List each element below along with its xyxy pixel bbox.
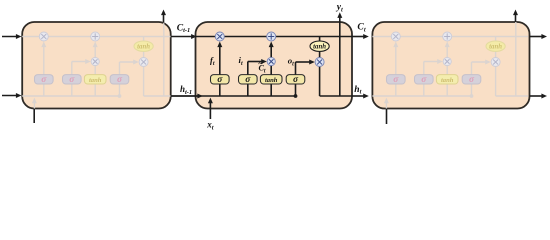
gate: sigma i — [239, 75, 258, 84]
svg-text:yt: yt — [336, 2, 343, 14]
wire: C_t-1 arrow between left and middle — [171, 36, 194, 38]
wire: candidate tanh column — [446, 84, 448, 96]
wire: C to tanh branch and output multiply — [495, 37, 497, 47]
op: tanh ellipse — [134, 41, 153, 51]
wire: x input vertical — [385, 101, 387, 119]
wire: output branch up to top — [339, 22, 341, 96]
gate: tanh box — [260, 75, 282, 84]
op: forget multiply — [39, 32, 48, 41]
op: forget multiply — [391, 32, 400, 41]
wire: x input vertical — [209, 101, 211, 119]
node: junction h/o gate — [118, 94, 122, 98]
wire: output h segment to right edge — [144, 95, 176, 97]
node: junction h/o gate — [294, 94, 298, 98]
wire: i gate column — [247, 84, 249, 96]
gate: sigma o — [462, 75, 481, 84]
svg-text:~: ~ — [258, 58, 263, 68]
wire: f gate column — [219, 84, 221, 96]
gate: sigma o — [286, 75, 305, 84]
svg-text:tanh: tanh — [489, 44, 502, 51]
op: output multiply — [491, 58, 500, 67]
op: add — [267, 32, 276, 41]
svg-text:tanh: tanh — [89, 77, 102, 84]
wire: input arrow into left cell (h) — [2, 95, 18, 97]
wire: f gate column — [395, 84, 397, 96]
svg-text:tanh: tanh — [265, 77, 278, 84]
wire: cell-state line C — [20, 36, 177, 38]
op: output multiply — [139, 58, 148, 67]
wire: x input vertical — [33, 101, 35, 119]
wire: cell-state line C — [196, 36, 353, 38]
svg-text:tanh: tanh — [137, 44, 150, 51]
wire: hidden-state line h — [347, 95, 472, 97]
ghost internals of previous cell — [0, 22, 176, 119]
wire: output h segment to right edge — [320, 95, 352, 97]
wire: C_t arrow between middle and right — [352, 36, 365, 38]
wire: h_t-1 arrow between left and middle — [171, 95, 200, 97]
op: tanh ellipse — [310, 41, 329, 51]
gate: tanh box — [436, 75, 458, 84]
node: junction h/o gate — [470, 94, 474, 98]
wire: output branch up to top — [163, 22, 165, 96]
op: forget multiply — [215, 32, 224, 41]
wire: hidden-state line h — [0, 95, 120, 97]
wire: hidden-state line h — [171, 95, 296, 97]
wire: f gate column — [43, 84, 45, 96]
wire: candidate tanh column — [94, 84, 96, 96]
svg-text:Ct: Ct — [357, 22, 365, 34]
gate: tanh box — [84, 75, 106, 84]
wire: o gate column — [471, 84, 473, 96]
wire: candidate tanh column — [270, 84, 272, 96]
LSTM cell body R — [372, 22, 529, 109]
wire: left cell top output arrow — [163, 13, 165, 22]
op: input multiply — [267, 57, 275, 65]
wire: cell-state line C — [372, 36, 529, 38]
svg-text:tanh: tanh — [313, 44, 326, 51]
gate: sigma f — [35, 75, 54, 84]
svg-text:ht-1: ht-1 — [180, 84, 192, 96]
wire: i gate column — [71, 84, 73, 96]
gate: sigma f — [211, 75, 230, 84]
wire: right cell bottom input stub — [386, 109, 388, 125]
wire: y_t output arrow of middle cell — [339, 16, 341, 22]
op: add — [443, 32, 452, 41]
op: tanh ellipse — [486, 41, 505, 51]
wire: i gate column — [423, 84, 425, 96]
wire: C to tanh branch and output multiply — [143, 37, 145, 47]
LSTM cell body L — [22, 22, 171, 109]
svg-text:Ct-1: Ct-1 — [177, 22, 191, 34]
op: output multiply — [315, 58, 324, 67]
op: input multiply — [443, 57, 451, 65]
gate: sigma o — [110, 75, 129, 84]
svg-text:xt: xt — [206, 119, 214, 131]
svg-text:tanh: tanh — [441, 77, 454, 84]
wire: h_t arrow between middle and right — [352, 95, 365, 97]
gate: sigma f — [387, 75, 406, 84]
svg-text:ht: ht — [354, 84, 361, 96]
wire: right cell h output arrow — [530, 95, 544, 97]
wire: right cell C output arrow — [530, 36, 544, 38]
LSTM cell body M — [196, 22, 353, 109]
wire: output branch up to top — [515, 22, 517, 96]
gate: sigma i — [415, 75, 434, 84]
wire: right cell top output arrow — [515, 13, 517, 22]
wire: left cell bottom input stub — [33, 109, 35, 124]
op: add — [91, 32, 100, 41]
wire: output h segment to right edge — [496, 95, 528, 97]
op: input multiply — [91, 57, 99, 65]
wire: input arrow into left cell (C) — [2, 36, 18, 38]
wire: o gate column — [295, 84, 297, 96]
detailed internals of current cell — [171, 22, 352, 119]
wire: C to tanh branch and output multiply — [319, 37, 321, 47]
wire: o gate column — [119, 84, 121, 96]
ghost internals of next cell — [347, 22, 528, 119]
gate: sigma i — [63, 75, 82, 84]
